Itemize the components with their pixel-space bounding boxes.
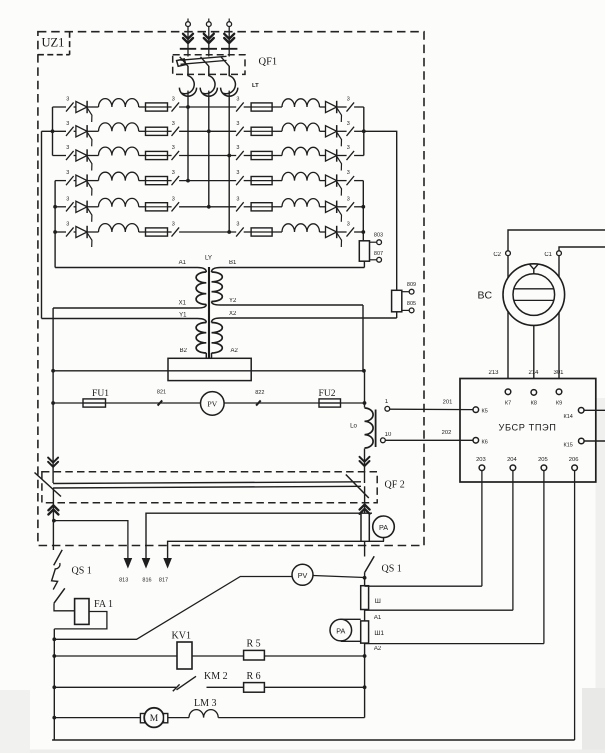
svg-text:FU2: FU2 xyxy=(319,389,336,399)
wire xyxy=(74,130,76,132)
svg-text:3: 3 xyxy=(66,196,69,202)
QF1 operating handle xyxy=(177,59,186,66)
svg-text:3: 3 xyxy=(66,97,69,103)
svg-text:213: 213 xyxy=(488,370,499,376)
wire xyxy=(168,180,172,182)
3-phase slash row 3 mid-right xyxy=(236,151,244,160)
fuse FU2 xyxy=(319,402,341,404)
wire xyxy=(337,180,347,182)
rectifier row 2 wire xyxy=(42,130,67,132)
ammeter PA lower xyxy=(341,619,361,641)
fuse F1 xyxy=(146,106,168,108)
wire xyxy=(337,206,347,208)
wire to terminal 803 xyxy=(370,241,377,243)
fuse F12 xyxy=(251,231,272,233)
rectifier row 5 wire xyxy=(55,206,66,208)
svg-text:301: 301 xyxy=(553,370,564,376)
scan gray right margin xyxy=(596,398,605,753)
terminal 807 xyxy=(377,257,382,262)
fuse F2 xyxy=(146,130,168,132)
terminal K5 xyxy=(473,407,479,413)
relay row KV1 xyxy=(54,655,364,657)
svg-text:PV: PV xyxy=(298,571,308,580)
svg-text:805: 805 xyxy=(407,301,416,307)
3-phase slash row 1 mid-left xyxy=(172,102,180,111)
wire to FA1 xyxy=(54,603,75,611)
wire xyxy=(208,27,210,57)
input terminal 2 xyxy=(208,19,210,22)
svg-text:3: 3 xyxy=(236,97,239,103)
wire resistor to B1 line xyxy=(363,261,365,267)
wire tap 821 xyxy=(158,400,163,405)
svg-text:Y2: Y2 xyxy=(229,298,237,304)
release zigzag xyxy=(52,569,58,590)
wire xyxy=(87,155,98,157)
cathode reactor L12 xyxy=(282,224,320,232)
wire across phase buses xyxy=(179,206,236,208)
smoothing reactor Lo xyxy=(365,408,374,448)
svg-text:3: 3 xyxy=(236,222,239,228)
svg-text:УБСР ТПЭП: УБСР ТПЭП xyxy=(499,423,557,433)
terminal C1 xyxy=(557,251,562,256)
motor M xyxy=(140,714,144,723)
svg-text:203: 203 xyxy=(476,457,486,463)
3-phase slash row 3 right xyxy=(347,151,355,160)
cathode reactor L7 xyxy=(282,99,320,107)
3-phase slash row 5 mid-right xyxy=(236,202,244,211)
wire to right bus xyxy=(354,106,364,108)
svg-text:UZ1: UZ1 xyxy=(42,36,65,50)
3-phase slash row 6 mid-left xyxy=(172,227,180,236)
QF1 contact blade pole 3 xyxy=(221,57,229,66)
jog wire row2 to outer bus xyxy=(364,131,397,290)
fuse F9 xyxy=(251,155,272,157)
wire xyxy=(139,106,146,108)
anode reactor L5 xyxy=(99,198,139,206)
3-phase slash row 4 left xyxy=(66,176,74,185)
svg-text:3: 3 xyxy=(66,145,69,151)
anode reactor L1 xyxy=(99,99,139,107)
svg-text:813: 813 xyxy=(119,578,128,584)
svg-text:LY: LY xyxy=(205,255,212,262)
svg-text:3: 3 xyxy=(347,121,350,127)
terminal 805 xyxy=(409,308,414,313)
terminal K14 xyxy=(578,408,584,414)
thyristor VS5 xyxy=(76,201,87,212)
svg-text:PA: PA xyxy=(379,523,388,532)
wire K14 xyxy=(584,409,605,411)
wire xyxy=(272,106,282,108)
fuse F4 xyxy=(146,180,168,182)
3-phase slash row 3 mid-left xyxy=(172,151,180,160)
svg-text:3: 3 xyxy=(236,121,239,127)
svg-text:Ш: Ш xyxy=(375,598,381,605)
wire xyxy=(187,27,189,57)
svg-text:822: 822 xyxy=(255,390,264,396)
3-phase slash row 5 left xyxy=(66,202,74,211)
motor row xyxy=(54,717,140,719)
svg-text:К7: К7 xyxy=(505,401,511,407)
3-phase slash row 4 mid-left xyxy=(172,176,180,185)
wire xyxy=(218,717,364,719)
3-phase slash row 4 right xyxy=(347,176,355,185)
DC bus from bracket xyxy=(53,370,364,372)
circuit breaker QF1 dashed box xyxy=(173,55,245,75)
anode reactor L3 xyxy=(99,147,139,155)
wire to right bus xyxy=(354,155,364,157)
svg-text:3: 3 xyxy=(172,145,175,151)
QF1 contact blade pole 1 xyxy=(180,57,188,66)
svg-text:214: 214 xyxy=(528,370,539,376)
resistor R5 xyxy=(244,650,265,660)
terminal C2 xyxy=(506,251,511,256)
svg-text:Y1: Y1 xyxy=(179,313,187,319)
wire xyxy=(168,231,172,233)
wire xyxy=(139,155,146,157)
wire to terminal 805 xyxy=(402,309,409,311)
QF2 left blade xyxy=(35,473,62,497)
wire xyxy=(87,130,98,132)
svg-text:A1: A1 xyxy=(179,260,187,266)
wire xyxy=(168,206,172,208)
scan gray bottom margin xyxy=(0,750,605,753)
svg-text:807: 807 xyxy=(374,251,383,257)
thyristor VS4 xyxy=(76,175,87,186)
relay coil KV1 xyxy=(177,642,192,669)
wire 203 tap xyxy=(365,585,482,587)
wire xyxy=(139,206,146,208)
thyristor VS1 xyxy=(76,101,87,112)
wire xyxy=(244,180,251,182)
svg-text:К8: К8 xyxy=(531,401,537,407)
svg-text:M: M xyxy=(150,714,159,724)
svg-text:А1: А1 xyxy=(374,615,382,621)
left vertical X1 to QF2 xyxy=(52,308,54,483)
svg-text:3: 3 xyxy=(347,97,350,103)
ammeter PA xyxy=(373,516,395,538)
connector bar pole 3 xyxy=(221,48,237,50)
wire xyxy=(208,91,210,97)
svg-text:К14: К14 xyxy=(564,414,573,420)
svg-text:LM 3: LM 3 xyxy=(194,698,217,709)
wire to 813 xyxy=(54,521,128,558)
terminal K6 xyxy=(473,438,479,444)
machine leads xyxy=(507,256,509,389)
QF2 bar xyxy=(53,482,361,484)
wire to right bus xyxy=(354,130,364,132)
3-phase slash row 2 mid-left xyxy=(172,127,180,136)
wire xyxy=(168,106,172,108)
svg-text:3: 3 xyxy=(347,222,350,228)
outgoing feeder arrow 816 xyxy=(142,558,151,569)
disconnect chevrons pole 2 xyxy=(204,34,214,43)
resistor with taps 809/805 xyxy=(392,290,402,312)
wire xyxy=(272,231,282,233)
3-phase slash row 6 left xyxy=(66,227,74,236)
wire 202 xyxy=(385,439,473,441)
svg-text:B1: B1 xyxy=(229,260,237,266)
wire xyxy=(383,538,385,542)
winding X2-A2 xyxy=(212,318,397,323)
svg-text:Lo: Lo xyxy=(350,423,357,430)
svg-text:PV: PV xyxy=(207,399,217,408)
svg-text:3: 3 xyxy=(172,97,175,103)
svg-text:201: 201 xyxy=(443,400,453,406)
wire K15 xyxy=(584,440,605,442)
cathode reactor L8 xyxy=(282,123,320,131)
wire across phase buses xyxy=(179,106,236,108)
anode reactor L2 xyxy=(99,123,139,131)
svg-text:QS 1: QS 1 xyxy=(382,564,402,575)
voltmeter PV lower xyxy=(292,564,313,585)
connector bar pole 1 xyxy=(180,48,196,50)
svg-text:3: 3 xyxy=(172,170,175,176)
fuse FU1 xyxy=(83,402,106,404)
wire to 816 xyxy=(146,513,372,558)
resistor R6 xyxy=(244,683,265,693)
3-phase slash row 1 mid-right xyxy=(236,102,244,111)
resistor with taps 803/807 xyxy=(359,241,369,261)
svg-text:A2: A2 xyxy=(231,348,239,354)
rotor lines xyxy=(513,288,554,290)
disconnect chevrons pole 3 xyxy=(224,34,234,43)
3-phase slash row 3 left xyxy=(66,151,74,160)
wire across phase buses xyxy=(179,180,236,182)
svg-text:3: 3 xyxy=(172,196,175,202)
wire xyxy=(74,231,76,233)
main DC vertical xyxy=(364,541,366,556)
fuse F10 xyxy=(251,180,272,182)
thyristor VS9 xyxy=(326,150,337,161)
3-phase slash row 1 right xyxy=(347,102,355,111)
terminal K9 xyxy=(556,389,562,395)
svg-text:К9: К9 xyxy=(556,401,562,407)
svg-text:QF 2: QF 2 xyxy=(385,480,405,491)
3-phase slash row 1 left xyxy=(66,102,74,111)
UZ1 label box xyxy=(38,54,70,56)
cathode reactor L9 xyxy=(282,147,320,155)
wire xyxy=(228,91,230,97)
winding A1-X1 xyxy=(55,268,206,273)
terminal K7 xyxy=(505,389,511,395)
wire xyxy=(74,180,76,182)
svg-text:206: 206 xyxy=(569,457,579,463)
top notch xyxy=(529,264,538,274)
left tie bus rows 1-3 xyxy=(52,107,54,156)
left wire below QF2 xyxy=(52,488,54,550)
winding Y1-B2 xyxy=(42,319,207,323)
wire xyxy=(272,130,282,132)
QS1 lower blade xyxy=(54,588,65,603)
thyristor VS6 xyxy=(76,226,87,237)
right DC vertical xyxy=(364,371,366,408)
svg-text:204: 204 xyxy=(507,457,517,463)
wire xyxy=(320,106,326,108)
transformer LY core xyxy=(208,267,210,359)
wire 201 xyxy=(390,408,473,410)
wire xyxy=(244,130,251,132)
wire xyxy=(320,206,326,208)
wire xyxy=(87,231,98,233)
wire 204 xyxy=(512,471,514,611)
thyristor VS12 xyxy=(326,226,337,237)
disconnect chevrons left xyxy=(48,458,58,467)
QF1 release hook pole 2 xyxy=(203,66,215,94)
svg-text:R 6: R 6 xyxy=(247,671,261,682)
wire xyxy=(244,106,251,108)
converter unit UZ1 dashed enclosure xyxy=(38,32,424,546)
secondary common bracket xyxy=(168,358,251,380)
wire xyxy=(320,130,326,132)
wire to right bus xyxy=(354,206,363,208)
3-phase slash row 2 right xyxy=(347,127,355,136)
wire C2 to edge xyxy=(508,230,605,251)
machine BC body xyxy=(503,264,565,326)
fuse F11 xyxy=(251,206,272,208)
measurement wire xyxy=(53,402,364,404)
fuse F7 xyxy=(251,106,272,108)
svg-text:FU1: FU1 xyxy=(92,389,109,399)
phase bus C xyxy=(228,96,230,232)
outgoing feeder arrow 813 xyxy=(124,558,133,569)
wire resistor to X2 line xyxy=(396,312,398,318)
fuse F6 xyxy=(146,231,168,233)
wire 205 xyxy=(543,471,545,644)
svg-text:Ш1: Ш1 xyxy=(374,630,384,637)
wire xyxy=(168,155,172,157)
phase bus A xyxy=(187,96,189,180)
3-phase slash row 4 mid-right xyxy=(236,176,244,185)
wire xyxy=(168,130,172,132)
svg-text:3: 3 xyxy=(236,196,239,202)
thyristor VS7 xyxy=(326,101,337,112)
wire xyxy=(337,106,347,108)
winding B1-Y2 xyxy=(212,268,365,273)
svg-text:817: 817 xyxy=(159,578,168,584)
terminal K15 xyxy=(579,438,585,444)
svg-text:10: 10 xyxy=(385,432,392,438)
wire xyxy=(320,155,326,157)
svg-text:803: 803 xyxy=(374,233,383,239)
svg-text:LT: LT xyxy=(252,83,259,89)
fuse F8 xyxy=(251,130,272,132)
wire xyxy=(320,231,326,233)
contactor row KM2 xyxy=(54,686,176,688)
svg-text:809: 809 xyxy=(407,282,416,288)
shunt Sh xyxy=(361,586,369,610)
3-phase slash row 6 right xyxy=(347,227,355,236)
terminal K8 xyxy=(531,390,537,396)
cathode reactor L11 xyxy=(282,199,320,207)
wire xyxy=(228,27,230,57)
wire xyxy=(168,717,189,719)
wire to terminal 809 xyxy=(402,291,409,293)
svg-text:3: 3 xyxy=(347,196,350,202)
wire xyxy=(139,180,146,182)
right tie bus rows 4-6 xyxy=(362,181,364,241)
wire xyxy=(87,180,98,182)
shunt on QF2 output xyxy=(360,513,362,541)
wire 203 xyxy=(481,471,483,587)
rectifier row 4 wire xyxy=(55,180,66,182)
svg-text:FA 1: FA 1 xyxy=(94,599,113,610)
connector bar pole 2 xyxy=(201,48,217,50)
3-phase slash row 2 left xyxy=(66,127,74,136)
Lo core bar xyxy=(375,410,377,448)
svg-text:3: 3 xyxy=(347,170,350,176)
bottom return bus xyxy=(52,739,575,741)
QF1 release hook pole 3 xyxy=(223,66,235,94)
svg-text:X1: X1 xyxy=(179,301,187,307)
wire xyxy=(74,155,76,157)
wire xyxy=(337,130,347,132)
wire xyxy=(87,206,98,208)
svg-text:3: 3 xyxy=(66,121,69,127)
voltmeter PV xyxy=(201,392,225,416)
contact KM2 xyxy=(177,676,197,690)
wire xyxy=(139,130,146,132)
svg-text:X2: X2 xyxy=(229,311,237,317)
terminal 803 xyxy=(377,240,382,245)
wire row to PV xyxy=(54,577,292,640)
svg-text:PA: PA xyxy=(336,626,345,635)
circuit breaker QF2 dashed box xyxy=(42,472,377,503)
wire xyxy=(272,180,282,182)
wire PV to main vertical xyxy=(313,576,365,578)
input terminal 1 xyxy=(187,19,189,22)
svg-text:816: 816 xyxy=(142,578,151,584)
reactor LM3 xyxy=(189,710,218,718)
svg-text:KV1: KV1 xyxy=(172,631,191,642)
svg-text:3: 3 xyxy=(172,222,175,228)
wire C1 to edge xyxy=(559,247,605,251)
thyristor VS2 xyxy=(76,126,87,137)
wire xyxy=(244,231,251,233)
outgoing feeder arrow 817 xyxy=(163,558,172,569)
rectifier row 1 wire xyxy=(53,106,67,108)
disconnect chevrons pole 1 xyxy=(183,34,193,43)
3-phase slash row 5 right xyxy=(347,202,355,211)
svg-text:R 5: R 5 xyxy=(247,639,261,650)
svg-text:3: 3 xyxy=(236,145,239,151)
anode reactor L4 xyxy=(99,172,139,180)
svg-text:К15: К15 xyxy=(564,442,573,448)
svg-text:821: 821 xyxy=(157,390,166,396)
3-phase slash row 6 mid-right xyxy=(236,227,244,236)
far left vertical wire row2 to Y1 xyxy=(41,131,43,318)
svg-text:BC: BC xyxy=(478,290,493,302)
wire to right bus xyxy=(354,231,363,233)
cathode reactor L10 xyxy=(282,172,320,180)
disconnect chevrons right xyxy=(360,457,370,466)
anode reactor L6 xyxy=(99,224,139,232)
wire 206 xyxy=(574,471,576,740)
3-phase slash row 2 mid-right xyxy=(236,127,244,136)
left tie bus rows 4-6 to A1 xyxy=(54,181,56,268)
wire tap 822 xyxy=(256,400,261,405)
svg-text:C2: C2 xyxy=(493,252,501,258)
QF2 right blade xyxy=(346,475,369,499)
QF1 release hook pole 1 xyxy=(182,66,194,94)
fuse F5 xyxy=(146,206,168,208)
wire xyxy=(337,231,347,233)
wire xyxy=(74,106,76,108)
wire xyxy=(74,206,76,208)
svg-text:А2: А2 xyxy=(374,646,382,652)
rectifier row 6 wire xyxy=(55,231,66,233)
svg-text:C1: C1 xyxy=(544,252,552,258)
input terminal 3 xyxy=(228,19,230,22)
